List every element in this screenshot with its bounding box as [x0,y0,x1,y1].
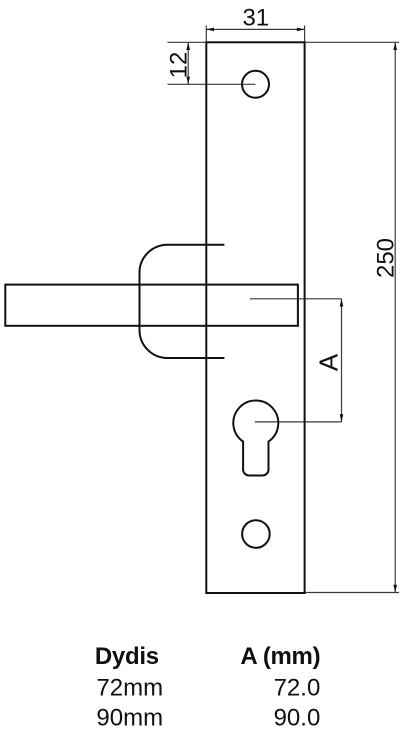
svg-text:250: 250 [373,238,400,278]
svg-text:72mm: 72mm [96,675,163,702]
svg-text:72.0: 72.0 [274,675,321,702]
svg-text:12: 12 [166,52,193,79]
svg-text:Dydis: Dydis [95,643,159,670]
svg-text:90.0: 90.0 [274,705,321,732]
svg-text:31: 31 [242,5,269,32]
svg-text:A (mm): A (mm) [240,643,320,670]
svg-text:A: A [314,353,344,371]
svg-text:90mm: 90mm [96,705,163,732]
